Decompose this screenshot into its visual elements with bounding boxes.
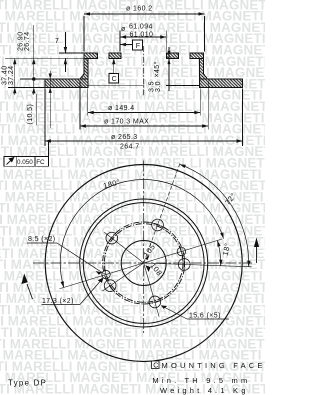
180 deg arc r82 from 17 to 197 (60, 179, 223, 287)
labels with leaders (28, 236, 221, 320)
svg-text:7: 7 (55, 38, 59, 45)
braking band section (45, 79, 88, 87)
bolt holes + spokes (60, 163, 252, 316)
bottom right notes (152, 361, 265, 395)
hat left wall (80, 58, 88, 79)
svg-text:Min. TH 9.5 mm: Min. TH 9.5 mm (152, 376, 250, 385)
band bottom extension (8, 86, 45, 88)
F leader (120, 44, 133, 46)
149.4 dim (88, 112, 201, 114)
(10.5) leader (35, 94, 37, 126)
svg-text:61.010: 61.010 (130, 32, 154, 39)
dia 160.2 dim (84, 13, 205, 15)
centerlines (33, 161, 252, 334)
105/108 radial arrows (145, 255, 151, 272)
bolt circle dashed (104, 224, 183, 303)
svg-text:MOUNTING FACE: MOUNTING FACE (162, 361, 266, 370)
svg-text:C: C (153, 363, 158, 370)
dia 61 dim (120, 36, 166, 38)
26.90 dim line (33, 25, 35, 95)
svg-text:264.7: 264.7 (120, 144, 140, 151)
svg-text:0.050: 0.050 (17, 159, 33, 166)
svg-text:17.3 (×2): 17.3 (×2) (42, 298, 74, 305)
arc end arrows (60, 164, 250, 287)
svg-text:F: F (136, 43, 141, 50)
chamfer dim vertical (168, 47, 170, 91)
svg-text:8.5 (×2): 8.5 (×2) (28, 236, 56, 243)
FCF box (4, 157, 49, 167)
flange plate segments (84, 53, 97, 58)
svg-text:FC: FC (36, 159, 45, 166)
svg-text:Type DP: Type DP (8, 379, 47, 388)
svg-text:×45°: ×45° (153, 61, 161, 77)
svg-text:ø 160.2: ø 160.2 (126, 6, 153, 13)
C and F boxes (109, 40, 143, 83)
arrows (filled) (13, 12, 242, 143)
svg-text:26.74: 26.74 (24, 31, 31, 51)
svg-text:Weight 4.1 Kg: Weight 4.1 Kg (160, 386, 249, 395)
svg-text:ø 149.4: ø 149.4 (108, 105, 135, 112)
hat circle (83, 203, 204, 324)
band inner circle (80, 199, 208, 327)
37.40 dim line (14, 58, 16, 95)
svg-text:37.24: 37.24 (8, 65, 15, 85)
svg-text:C: C (112, 76, 117, 83)
FCF leader (47, 141, 49, 157)
svg-text:ø 170.3 MAX: ø 170.3 MAX (104, 119, 149, 126)
top dim texts (55, 6, 153, 151)
dimension arcs (60, 164, 249, 287)
265.3 dim (45, 140, 243, 142)
svg-text:61.094: 61.094 (129, 24, 153, 31)
mounting face extension line (5, 57, 84, 59)
arc texts (102, 177, 238, 278)
svg-text:ø 265.3: ø 265.3 (111, 134, 138, 141)
band top ext (dot line) (20, 78, 45, 80)
18 deg arc r77 from -2 to 17 (217, 240, 220, 265)
axis centerline of section (143, 46, 145, 96)
right vertical arrow (254, 238, 259, 264)
265.3 left ext (44, 89, 46, 147)
C leader (113, 59, 115, 74)
72 deg arc r105 from -2 to 70 (180, 164, 249, 266)
outer circle (45, 165, 242, 362)
svg-text:(10.5): (10.5) (27, 104, 34, 125)
rotated left dim texts (2, 31, 163, 124)
svg-text:15.6 (×5): 15.6 (×5) (189, 313, 221, 320)
hat right wall (200, 58, 208, 79)
bore circle (121, 241, 166, 286)
rotation arrow left (21, 274, 32, 300)
170.3 dim (80, 125, 208, 127)
7 dim (59, 52, 85, 54)
svg-text:ø: ø (121, 26, 126, 33)
svg-text:3.0: 3.0 (155, 81, 162, 92)
